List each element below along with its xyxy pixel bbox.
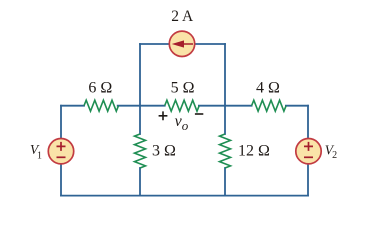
wire top rail left segment bbox=[61, 105, 84, 107]
wire 3ohm branch lower lead bbox=[139, 168, 141, 196]
wire left branch upper bbox=[60, 106, 62, 138]
svg-text:4 Ω: 4 Ω bbox=[256, 79, 280, 96]
resistor 4ohm zigzag bbox=[252, 100, 287, 111]
wire current-source loop top-right segment bbox=[195, 43, 226, 45]
wire top rail between 5ohm and 4ohm bbox=[199, 105, 252, 107]
wire current-source loop left vertical bbox=[139, 44, 141, 106]
wire 12ohm branch lower lead bbox=[224, 168, 226, 196]
wire current-source loop right vertical bbox=[224, 44, 226, 106]
voltage source V2 minus sign bbox=[304, 156, 313, 158]
svg-text:12 Ω: 12 Ω bbox=[238, 143, 270, 160]
voltage source V2 circle bbox=[296, 139, 321, 164]
vo minus sign bbox=[195, 113, 203, 115]
wire current-source loop top-left segment bbox=[140, 43, 170, 45]
svg-text:3 Ω: 3 Ω bbox=[152, 143, 176, 160]
current source arrow bbox=[172, 40, 193, 47]
current source 2A circle bbox=[169, 31, 194, 56]
resistor 5ohm zigzag bbox=[165, 100, 200, 111]
wire top rail between 6ohm and 5ohm bbox=[118, 105, 165, 107]
voltage source V2 plus sign bbox=[304, 142, 313, 157]
voltage source V1 minus sign bbox=[57, 156, 66, 158]
resistor 12ohm zigzag bbox=[220, 134, 231, 168]
wire left branch lower bbox=[60, 164, 62, 195]
voltage source V1 plus sign bbox=[57, 142, 66, 157]
resistor 3ohm zigzag bbox=[135, 134, 146, 168]
wire right branch upper bbox=[307, 106, 309, 138]
svg-text:5 Ω: 5 Ω bbox=[171, 79, 195, 96]
wire 3ohm branch upper lead bbox=[139, 106, 141, 134]
wire right branch lower bbox=[307, 164, 309, 195]
svg-text:6 Ω: 6 Ω bbox=[88, 79, 112, 96]
wire bottom rail bbox=[61, 195, 308, 197]
voltage source V1 circle bbox=[48, 139, 73, 164]
wire 12ohm branch upper lead bbox=[224, 106, 226, 134]
vo plus sign bbox=[159, 111, 204, 120]
resistor 6ohm zigzag bbox=[84, 100, 119, 111]
svg-text:2 A: 2 A bbox=[171, 8, 194, 25]
wire top rail right segment bbox=[286, 105, 308, 107]
